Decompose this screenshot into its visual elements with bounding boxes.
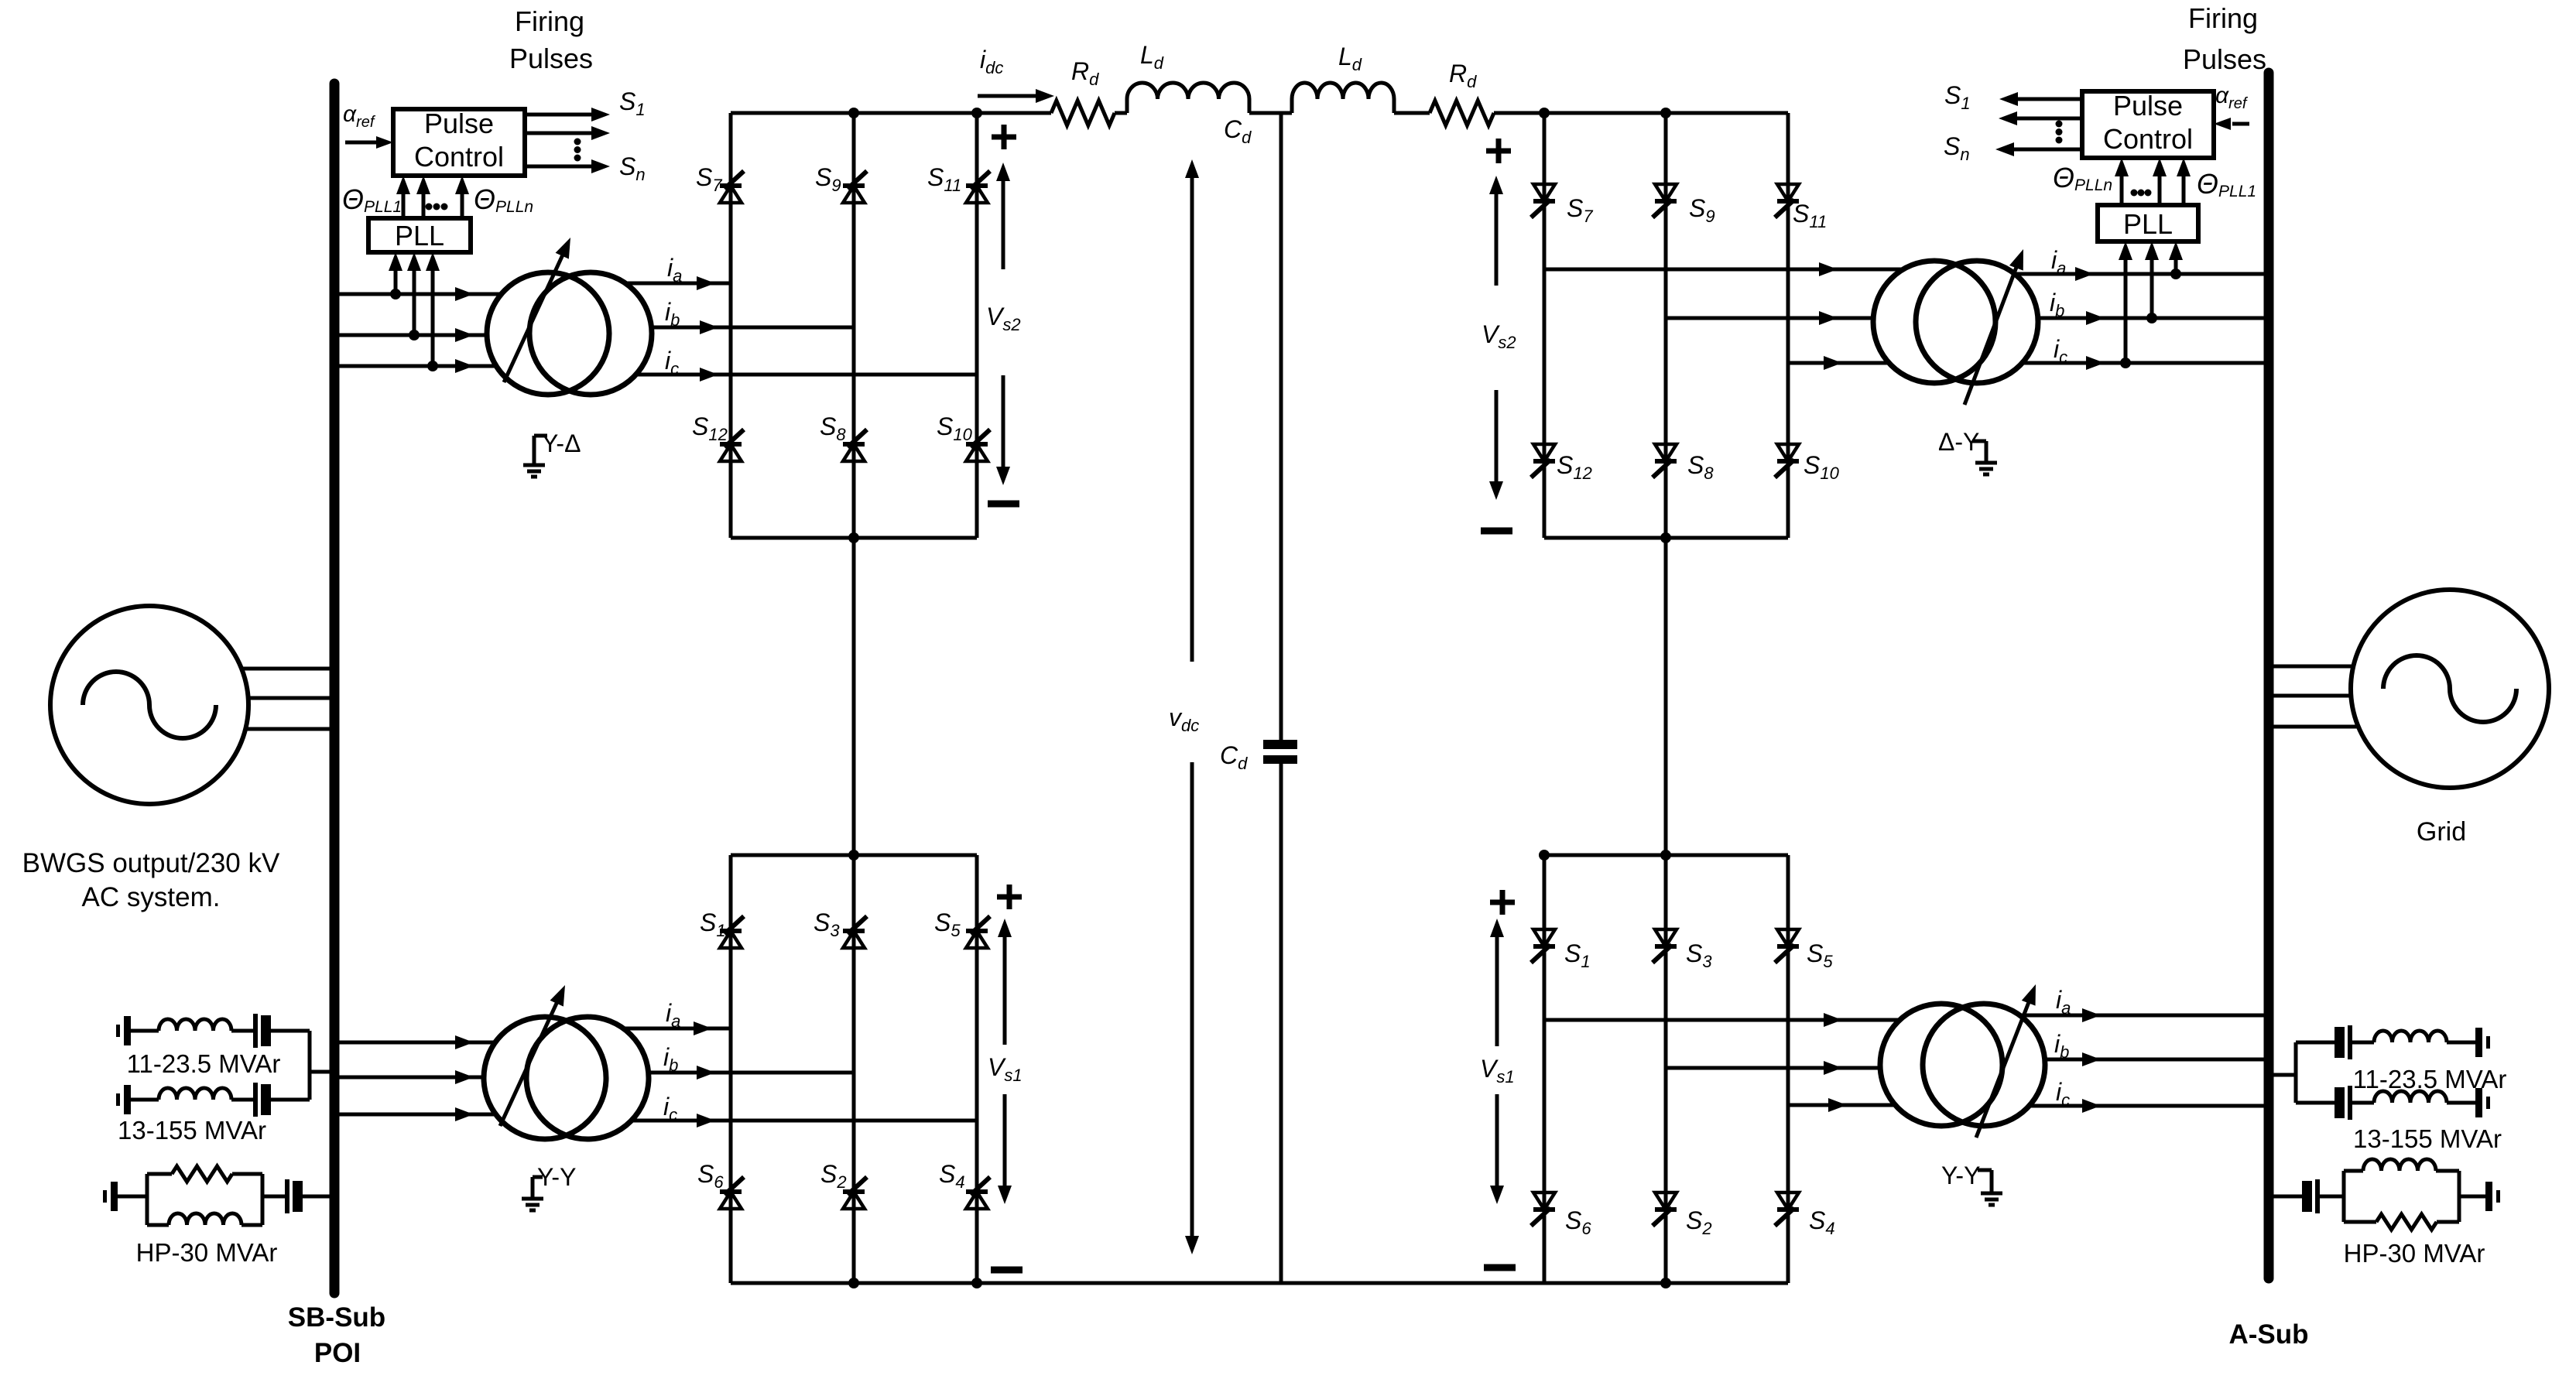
filter HP-30 MVAr (right): resistor (2376, 1214, 2437, 1230)
filter 11-23.5 MVAr (right): ground (2475, 1028, 2482, 1057)
plus sign Vs2 (left) (992, 135, 1016, 140)
junction DC- leg3 left (971, 1278, 982, 1288)
svg-text:Y-Y: Y-Y (1941, 1162, 1980, 1189)
arrow idc (978, 94, 1039, 98)
transformer Y-Y (lower right) (1880, 1004, 2002, 1126)
thyristor S7 (720, 183, 742, 188)
arrow Vs1 up (left) (1003, 934, 1007, 1045)
arrow firing pulse Sn (left) (525, 165, 594, 169)
thyristor S2 (lower right) (1655, 1207, 1677, 1212)
thyristor S5 (lower left) (966, 929, 988, 933)
filter 13-155 MVAr (left): wire (131, 1098, 159, 1102)
wire transformer to bus ic (upper right) (2023, 361, 2265, 365)
wire DC+ rail from bridge to Rd (977, 111, 1051, 115)
junction phase c PLL tap (427, 361, 438, 371)
wire bus to Y-Y transformer phase c (lower left) (339, 1113, 495, 1117)
transformer Y-D (upper left) (487, 272, 609, 395)
filter HP-30 MVAr (left): wire to bus (303, 1195, 334, 1199)
thyristor S7 (right) (1533, 199, 1555, 204)
wire bridge to D-Y transformer ib (upper right) (1666, 317, 1874, 320)
wire bridge to D-Y transformer ic (upper right) (1788, 361, 1889, 365)
bridge upper-left top rail (731, 111, 977, 115)
filter HP-30 MVAr (left): capacitor (285, 1179, 289, 1213)
arrow vdc upper segment (1190, 175, 1194, 662)
filter 13-155 MVAr (right): capacitor (2334, 1087, 2345, 1118)
wire Grid to bus phase c (2273, 725, 2358, 729)
inductor Ld (left) (1125, 99, 1129, 113)
ellipsis dots firing pulses (left) (574, 139, 581, 145)
thyristor S12 (right) (1533, 459, 1555, 464)
inductor Ld (right) (1290, 99, 1294, 113)
svg-text:Firing: Firing (515, 5, 584, 37)
junction top rail leg1 (lower right) (1539, 850, 1550, 861)
capacitor Cd (1263, 740, 1297, 749)
transformer Y-Y (lower left) (484, 1017, 606, 1139)
wire riser between bridges (right) (1664, 538, 1668, 855)
filter HP-30 MVAr (left): wire (118, 1195, 147, 1199)
filter 13-155 MVAr (right): wire (2352, 1101, 2374, 1105)
transformer D-Y (upper right) (1873, 261, 1995, 383)
junction top rail leg3 (971, 108, 982, 118)
svg-text:PLL: PLL (395, 220, 444, 252)
svg-text:11-23.5 MVAr: 11-23.5 MVAr (2353, 1065, 2507, 1093)
svg-text:Pulse: Pulse (2113, 90, 2183, 121)
thyristor S4 (lower left) (966, 1189, 988, 1194)
junction DC- leg2 right (1660, 1278, 1671, 1288)
plus sign Vs1 (left) (997, 895, 1022, 900)
filter 13-155 MVAr (left): inductor (159, 1088, 231, 1100)
svg-text:Control: Control (2103, 123, 2193, 155)
wire transformer to bridge ic (lower left) (632, 1119, 977, 1123)
arrow phase a tap into PLL (right) (2174, 257, 2178, 274)
arrow PLL output 2 to pulse control (422, 191, 426, 218)
svg-text:Grid: Grid (2417, 817, 2466, 847)
wire AC source to bus phase b (248, 696, 339, 700)
bridge lower-left leg 3 wire (975, 855, 979, 1283)
thyristor S4 (lower right) (1777, 1207, 1799, 1212)
bridge upper-left leg 2 wire (852, 113, 856, 538)
svg-text:BWGS output/230 kV: BWGS output/230 kV (22, 848, 280, 878)
thyristor S11 (right) (1777, 199, 1799, 204)
arrow alpha_ref into pulse control (left) (345, 141, 379, 145)
bridge upper-right leg 3 wire (1786, 113, 1790, 538)
thyristor S9 (843, 183, 865, 188)
arrow Vs1 up (right) (1495, 934, 1499, 1046)
wire capacitor Cd lower (1279, 764, 1283, 1283)
bridge upper-left leg 1 wire (729, 113, 733, 538)
wire Grid to bus phase a (2273, 665, 2353, 669)
plus sign Vs1 (right) (1490, 900, 1515, 905)
thyristor S6 (lower left) (720, 1189, 742, 1194)
wire filter junction stub to bus (left) (308, 1031, 312, 1100)
bridge upper-right leg 2 wire (1664, 113, 1668, 538)
bus A-Sub (right busbar) (2264, 73, 2274, 1278)
filter 11-23.5 MVAr (left): capacitor (253, 1014, 258, 1048)
svg-text:Pulse: Pulse (424, 108, 494, 139)
svg-text:HP-30 MVAr: HP-30 MVAr (2344, 1239, 2485, 1268)
filter HP-30 MVAr (right): wire from bus (2273, 1195, 2302, 1199)
wire bus to Y-Y transformer phase b (lower left) (339, 1076, 484, 1080)
arrow alpha_ref into pulse control (right) (2232, 122, 2249, 126)
AC source Grid (right generator symbol) (2351, 590, 2549, 788)
arrow Vs1 down (left) (1003, 1094, 1007, 1189)
filter HP-30 MVAr (left): wire (262, 1195, 285, 1199)
thyristor S2 (lower left) (843, 1189, 865, 1194)
bridge lower-left top rail (731, 854, 977, 857)
bridge lower-right top rail (1544, 854, 1788, 857)
resistor Rd (left) (1051, 101, 1115, 125)
thyristor S9 (right) (1655, 199, 1677, 204)
arrow Vs2 up (right) (1495, 191, 1499, 286)
thyristor S3 (lower left) (843, 929, 865, 933)
transformer Y-Y tap arrow (lower left) (500, 998, 559, 1126)
filter HP-30 MVAr (left): resistor (172, 1166, 232, 1182)
arrow Vs2 down (right) (1495, 390, 1499, 484)
wire filter junction stub to bus (right) (2294, 1042, 2298, 1103)
junction ia PLL tap (right) (2170, 269, 2181, 279)
bridge lower-left leg 1 wire (729, 855, 733, 1283)
bridge lower-right leg 1 wire (1543, 855, 1547, 1283)
junction DC- leg2 left (848, 1278, 859, 1288)
bus SB-Sub POI (left busbar) (330, 84, 340, 1293)
junction bottom rail leg2 (848, 532, 859, 543)
ellipsis dots firing pulses (right) (2056, 121, 2063, 128)
svg-text:Pulses: Pulses (2183, 43, 2266, 75)
svg-text:HP-30 MVAr: HP-30 MVAr (136, 1238, 278, 1267)
bridge lower-right leg 2 wire (1664, 855, 1668, 1283)
wire transformer to bridge phase ia (upper left) (626, 282, 731, 286)
arrow phase c tap into PLL (left) (431, 268, 435, 366)
arrow firing pulse S1 (right) (2015, 98, 2082, 101)
filter 13-155 MVAr (left): wire (231, 1098, 253, 1102)
thyristor S8 (843, 442, 865, 447)
svg-text:11-23.5 MVAr: 11-23.5 MVAr (127, 1049, 281, 1078)
filter HP-30 MVAr (right): wire (2320, 1195, 2344, 1199)
transformer D-Y tap arrow (1965, 263, 2018, 405)
filter 13-155 MVAr (right): wire from junction (2296, 1101, 2334, 1105)
arrow PLL output 1 to pulse control (right) (2182, 173, 2186, 205)
wire riser between bridges (left) (852, 538, 856, 855)
bridge upper-right leg 1 wire (1543, 113, 1547, 538)
ground transformer D-Y neutral (1972, 440, 1986, 443)
arrow firing pulse S1 (left) (525, 113, 594, 117)
AC source BWGS (left generator symbol) (50, 606, 248, 804)
wire bridge to D-Y transformer ia (upper right) (1544, 268, 1903, 272)
junction ic PLL tap (right) (2120, 358, 2131, 368)
arrow PLL output n to pulse control (461, 191, 464, 218)
svg-text:PLL: PLL (2123, 208, 2173, 240)
arrow Vs2 down (left) (1002, 375, 1005, 470)
junction phase a PLL tap (390, 289, 401, 299)
arrow PLL output n to pulse control (right) (2120, 173, 2124, 205)
wire AC source to bus phase c (245, 727, 339, 731)
ellipsis dots PLL outputs (left) (426, 204, 433, 210)
filter 11-23.5 MVAr (right): inductor (2374, 1031, 2447, 1042)
filter 11-23.5 MVAr (right): wire (2447, 1041, 2475, 1045)
filter HP-30 MVAr (right): capacitor (2302, 1181, 2312, 1212)
arrow PLL output 1 to pulse control (402, 191, 406, 218)
wire bus to Y-D transformer phase a (339, 293, 502, 296)
wire transformer to bridge phase ic (upper left) (635, 373, 977, 377)
svg-text:AC system.: AC system. (82, 882, 221, 912)
filter HP-30 MVAr (right): wire (2459, 1195, 2485, 1199)
wire DC- rail (bottom) (731, 1281, 1788, 1285)
filter 13-155 MVAr (left): ground (116, 1093, 120, 1106)
wire transformer to bus ia (upper right) (2015, 272, 2265, 276)
filter 11-23.5 MVAr (left): wire (231, 1029, 253, 1033)
svg-text:SB-Sub: SB-Sub (288, 1302, 385, 1333)
wire bridge to Y-Y transformer ib (lower right) (1666, 1066, 1880, 1070)
thyristor S10 (966, 442, 988, 447)
filter HP-30 MVAr (left): ground (103, 1190, 107, 1203)
junction top rail leg2 (848, 108, 859, 118)
filter 11-23.5 MVAr (right): capacitor (2334, 1027, 2345, 1058)
wire transformer to bus ia (lower right) (2019, 1014, 2265, 1018)
wire bus to Y-Y transformer phase a (lower left) (339, 1041, 495, 1045)
bridge upper-right bottom rail (1544, 536, 1788, 540)
bridge upper-right top rail (1544, 111, 1788, 115)
ground transformer Y-Y neutral (lower right) (1978, 1169, 1992, 1172)
svg-text:Y-Y: Y-Y (537, 1163, 576, 1191)
filter 11-23.5 MVAr (left): wire to junction (271, 1029, 310, 1033)
thyristor S1 (lower right) (1533, 944, 1555, 949)
bridge lower-right leg 3 wire (1786, 855, 1790, 1283)
junction ib PLL tap (right) (2146, 313, 2157, 323)
junction top rail leg1 (upper right) (1539, 108, 1550, 118)
filter HP-30 MVAr (right): ground (2485, 1182, 2492, 1211)
wire transformer to bridge ib (lower left) (649, 1071, 854, 1075)
wire transformer to bus ib (upper right) (2038, 317, 2265, 320)
resistor Rd (right) (1430, 101, 1494, 125)
transformer Y-D tap arrow (504, 252, 564, 382)
filter 11-23.5 MVAr (left): ground (116, 1025, 120, 1037)
bridge upper-left bottom rail (731, 536, 977, 540)
PLL box (left) (368, 218, 471, 252)
wire transformer to bridge phase ib (upper left) (652, 326, 854, 330)
arrow firing pulse 2 (left) (525, 132, 594, 135)
filter HP-30 MVAr (right): RL box sides (2342, 1171, 2346, 1222)
junction bottom rail leg2 (upper right) (1660, 532, 1671, 543)
filter 13-155 MVAr (left): wire to junction (271, 1098, 310, 1102)
thyristor S1 (lower left) (720, 929, 742, 933)
ellipsis dots PLL outputs (right) (2131, 190, 2138, 197)
filter HP-30 MVAr (left): RL box sides (146, 1174, 149, 1225)
filter HP-30 MVAr (left): inductor (169, 1213, 241, 1225)
minus sign Vs1 (left) (991, 1267, 1023, 1274)
pulse control box (left) (393, 109, 525, 176)
junction top rail leg2 (lower left) (848, 850, 859, 861)
arrow phase c tap into PLL (right) (2124, 257, 2128, 363)
wire transformer to bridge ia (lower left) (624, 1027, 731, 1031)
thyristor S10 (right) (1777, 459, 1799, 464)
filter 11-23.5 MVAr (right): wire from junction (2296, 1041, 2334, 1045)
filter 11-23.5 MVAr (left): inductor (159, 1019, 231, 1031)
ground transformer Y-Y neutral (lower left) (533, 1175, 543, 1179)
wire transformer to bus ic (lower right) (2030, 1104, 2265, 1108)
arrow Vs1 down (right) (1495, 1094, 1499, 1189)
minus sign Vs1 (right) (1484, 1264, 1516, 1271)
wire between inductors / Cd junction (1249, 111, 1292, 115)
filter 13-155 MVAr (right): ground (2475, 1088, 2482, 1117)
wire transformer to bus ib (lower right) (2045, 1058, 2265, 1062)
junction top rail leg2 (lower right) (1660, 850, 1671, 861)
arrow firing pulse Sn (right) (2011, 148, 2082, 152)
wire bus to Y-D transformer phase b (339, 334, 487, 337)
wire bridge to Y-Y transformer ia (lower right) (1544, 1018, 1899, 1022)
thyristor S12 (720, 442, 742, 447)
svg-text:Y-Δ: Y-Δ (542, 429, 581, 457)
bridge lower-left leg 2 wire (852, 855, 856, 1283)
wire bridge to Y-Y transformer ic (lower right) (1788, 1104, 1895, 1107)
bridge upper-left leg 3 wire (975, 113, 979, 538)
thyristor S8 (right) (1655, 459, 1677, 464)
filter 13-155 MVAr (right): wire (2447, 1101, 2475, 1105)
wire capacitor Cd upper (1279, 113, 1283, 740)
wire Ld to Rd (right) (1394, 111, 1430, 115)
svg-text:POI: POI (314, 1338, 361, 1368)
filter 13-155 MVAr (left): capacitor (253, 1083, 258, 1117)
junction top rail leg2 (upper right) (1660, 108, 1671, 118)
minus sign Vs2 (left) (988, 501, 1019, 508)
filter 11-23.5 MVAr (right): wire (2352, 1041, 2374, 1045)
thyristor S3 (lower right) (1655, 944, 1677, 949)
svg-text:Pulses: Pulses (509, 43, 593, 74)
arrow firing pulse 2 (right) (2014, 117, 2082, 121)
ground transformer Y-D neutral (534, 434, 547, 438)
wire Grid to bus phase b (2273, 694, 2351, 698)
filter 11-23.5 MVAr (left): wire (131, 1029, 159, 1033)
minus sign Vs2 (right) (1481, 528, 1512, 535)
plus sign Vs2 (right) (1486, 149, 1511, 154)
pulse control box (right) (2082, 91, 2214, 158)
thyristor S11 (966, 183, 988, 188)
svg-text:13-155 MVAr: 13-155 MVAr (2353, 1124, 2502, 1153)
arrow vdc lower segment (1190, 762, 1194, 1239)
arrow phase b tap into PLL (left) (413, 268, 416, 335)
wire Rd to Ld (1115, 111, 1127, 115)
wire bus to Y-D transformer phase c (339, 364, 496, 368)
wire AC source to bus phase a (241, 667, 339, 671)
svg-text:Control: Control (414, 141, 504, 173)
arrow phase b tap into PLL (right) (2150, 257, 2154, 318)
junction phase b PLL tap (409, 330, 420, 340)
svg-text:A-Sub: A-Sub (2228, 1319, 2308, 1350)
filter 13-155 MVAr (right): inductor (2374, 1091, 2447, 1103)
thyristor S6 (lower right) (1533, 1207, 1555, 1212)
svg-text:Firing: Firing (2188, 2, 2258, 34)
arrow PLL output 2 to pulse control (right) (2158, 173, 2162, 205)
arrow phase a tap into PLL (left) (394, 268, 398, 294)
wire Rd to bridge (right) (1494, 111, 1544, 115)
filter HP-30 MVAr (right): inductor (2363, 1159, 2436, 1171)
PLL box (right) (2098, 205, 2198, 241)
svg-text:13-155 MVAr: 13-155 MVAr (118, 1116, 266, 1145)
arrow Vs2 up (left) (1002, 178, 1005, 269)
transformer Y-Y tap arrow (lower right) (1976, 998, 2030, 1138)
thyristor S5 (lower right) (1777, 944, 1799, 949)
